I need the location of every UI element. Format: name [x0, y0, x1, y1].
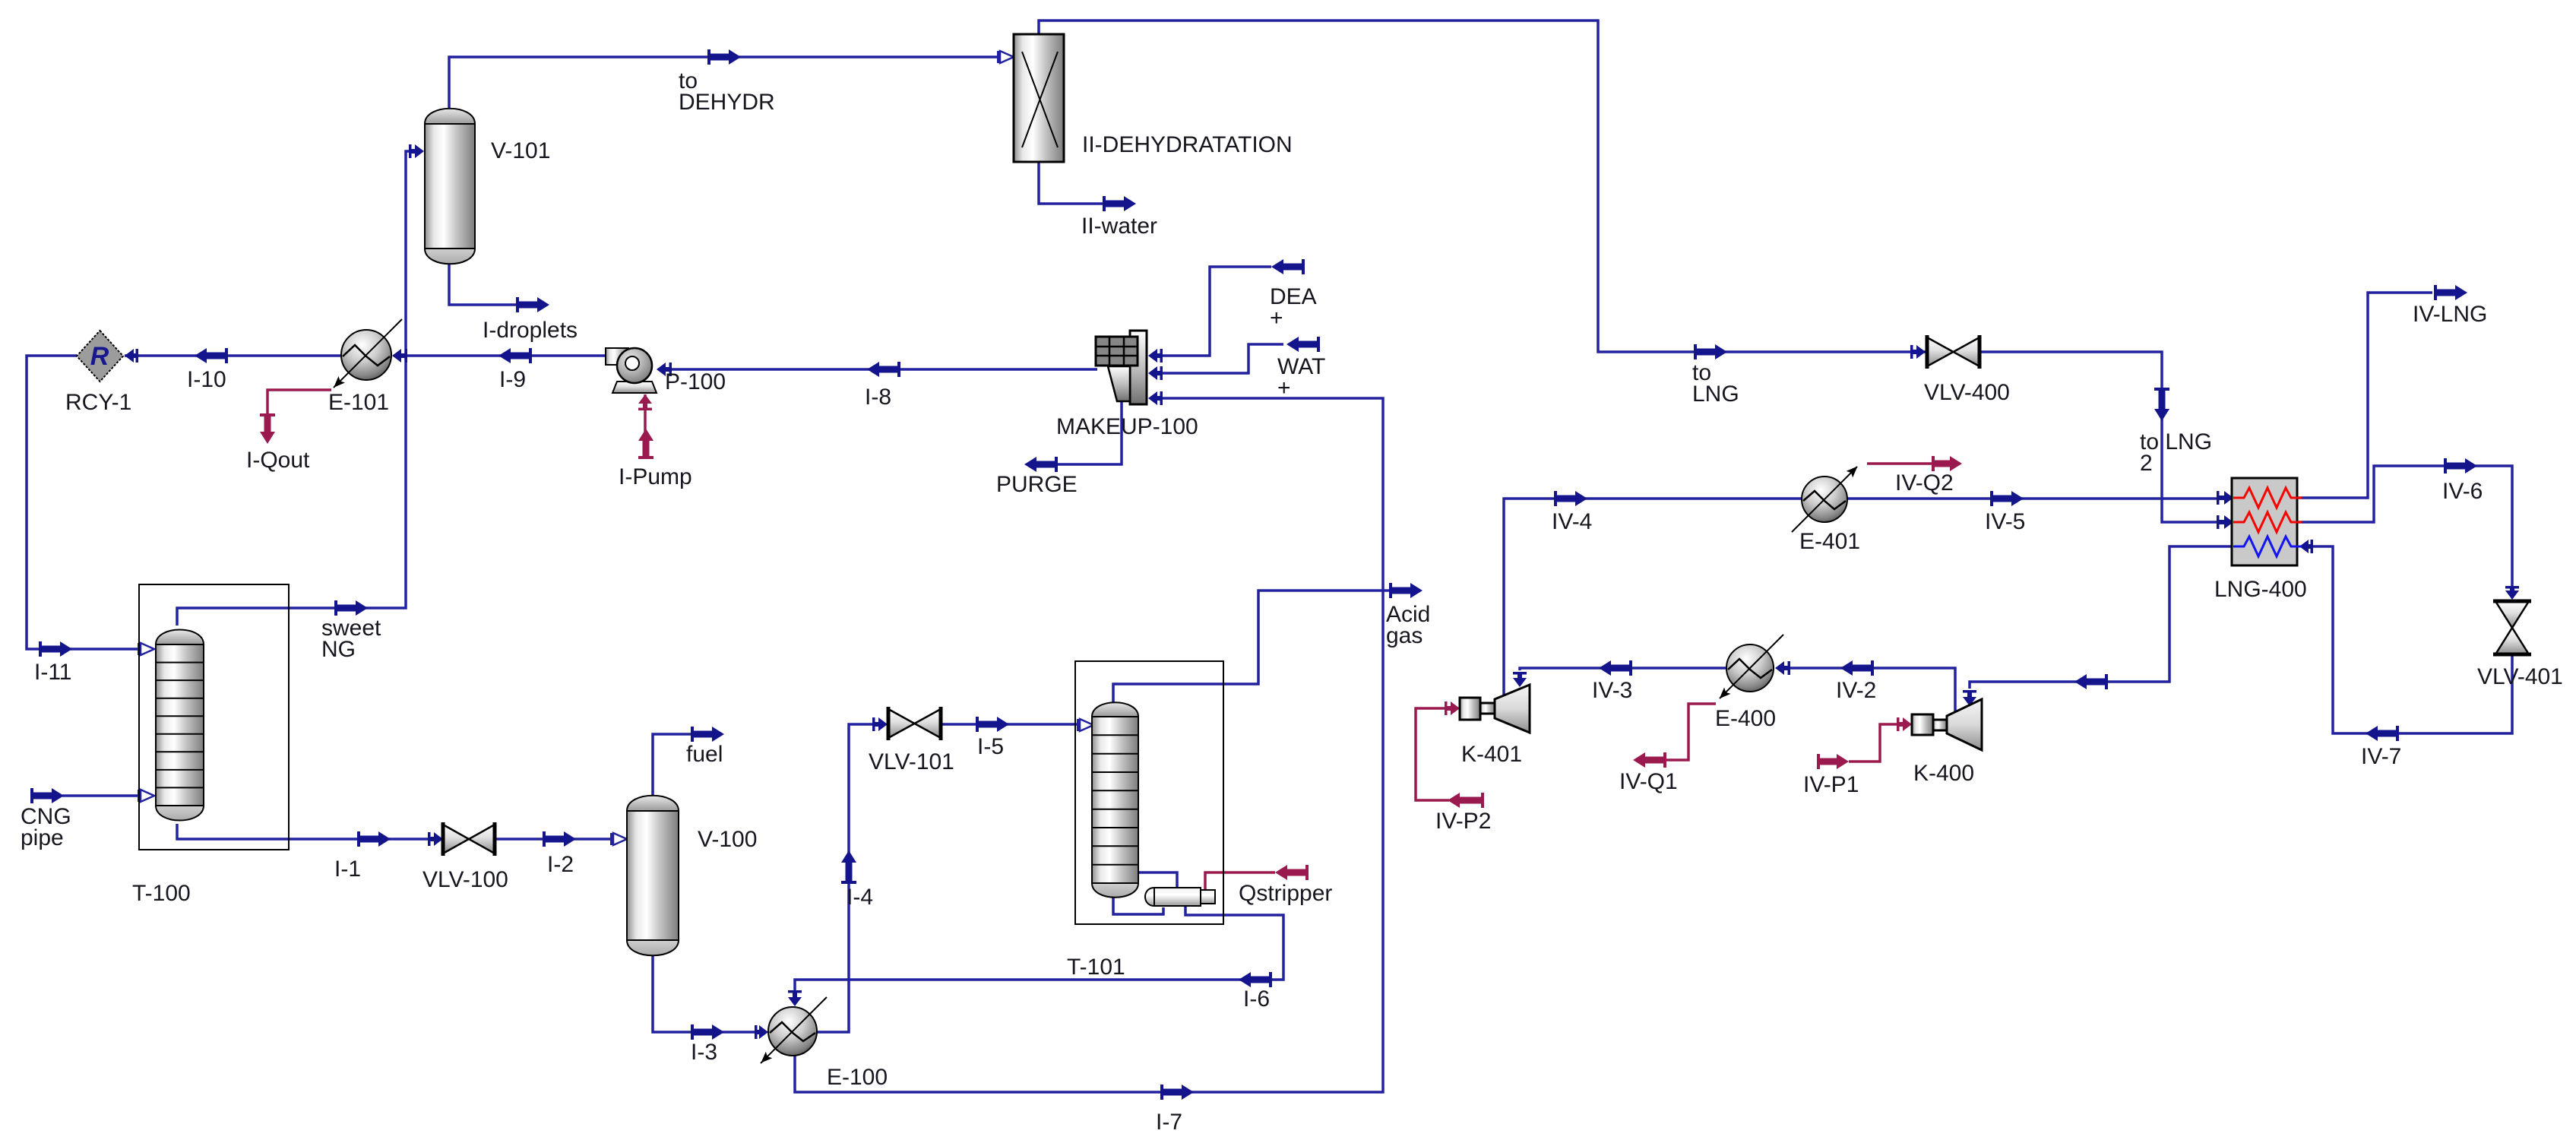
svg-text:I-6: I-6: [1243, 986, 1270, 1012]
svg-text:Qstripper: Qstripper: [1239, 881, 1332, 906]
svg-text:I-4: I-4: [847, 885, 873, 910]
svg-text:K-401: K-401: [1461, 742, 1522, 767]
svg-text:T-101: T-101: [1067, 955, 1125, 980]
svg-text:I-5: I-5: [977, 734, 1004, 759]
svg-text:V-100: V-100: [698, 827, 757, 852]
svg-text:CNGpipe: CNGpipe: [21, 804, 71, 850]
svg-text:VLV-401: VLV-401: [2477, 664, 2563, 689]
svg-text:IV-6: IV-6: [2442, 479, 2483, 504]
svg-text:I-9: I-9: [499, 367, 526, 392]
svg-text:II-water: II-water: [1081, 214, 1157, 239]
svg-text:I-1: I-1: [334, 857, 361, 882]
svg-text:I-Qout: I-Qout: [246, 448, 310, 473]
svg-text:E-400: E-400: [1715, 706, 1776, 731]
svg-text:I-10: I-10: [187, 367, 226, 392]
svg-text:IV-4: IV-4: [1552, 509, 1592, 534]
svg-text:fuel: fuel: [686, 742, 723, 767]
svg-text:I-3: I-3: [691, 1040, 717, 1065]
svg-text:I-11: I-11: [34, 660, 71, 685]
svg-text:VLV-100: VLV-100: [422, 867, 508, 892]
svg-text:VLV-101: VLV-101: [869, 749, 954, 774]
svg-text:V-101: V-101: [491, 138, 550, 163]
svg-text:MAKEUP-100: MAKEUP-100: [1056, 414, 1198, 439]
svg-text:E-101: E-101: [328, 390, 389, 415]
svg-text:I-Pump: I-Pump: [619, 464, 692, 489]
svg-text:LNG-400: LNG-400: [2214, 577, 2307, 602]
svg-text:E-401: E-401: [1799, 529, 1860, 554]
svg-text:IV-Q1: IV-Q1: [1619, 769, 1678, 794]
svg-text:IV-P2: IV-P2: [1435, 809, 1491, 834]
svg-text:VLV-400: VLV-400: [1924, 380, 2010, 405]
svg-text:IV-2: IV-2: [1836, 678, 1876, 703]
svg-text:I-7: I-7: [1156, 1110, 1182, 1135]
svg-text:I-8: I-8: [865, 385, 891, 410]
svg-text:E-100: E-100: [827, 1065, 888, 1090]
svg-text:K-400: K-400: [1913, 761, 1974, 786]
svg-text:IV-P1: IV-P1: [1803, 772, 1859, 797]
svg-text:P-100: P-100: [665, 369, 726, 394]
svg-text:IV-Q2: IV-Q2: [1895, 470, 1954, 496]
svg-text:IV-7: IV-7: [2361, 744, 2401, 769]
svg-text:R: R: [90, 342, 109, 371]
svg-text:IV-5: IV-5: [1985, 509, 2025, 534]
svg-text:IV-LNG: IV-LNG: [2413, 302, 2487, 327]
svg-text:II-DEHYDRATATION: II-DEHYDRATATION: [1082, 132, 1293, 157]
svg-text:I-droplets: I-droplets: [483, 318, 578, 343]
svg-text:T-100: T-100: [132, 881, 191, 906]
svg-text:IV-3: IV-3: [1592, 678, 1632, 703]
svg-text:I-2: I-2: [547, 852, 574, 877]
svg-text:PURGE: PURGE: [996, 472, 1078, 497]
svg-text:RCY-1: RCY-1: [65, 390, 131, 415]
